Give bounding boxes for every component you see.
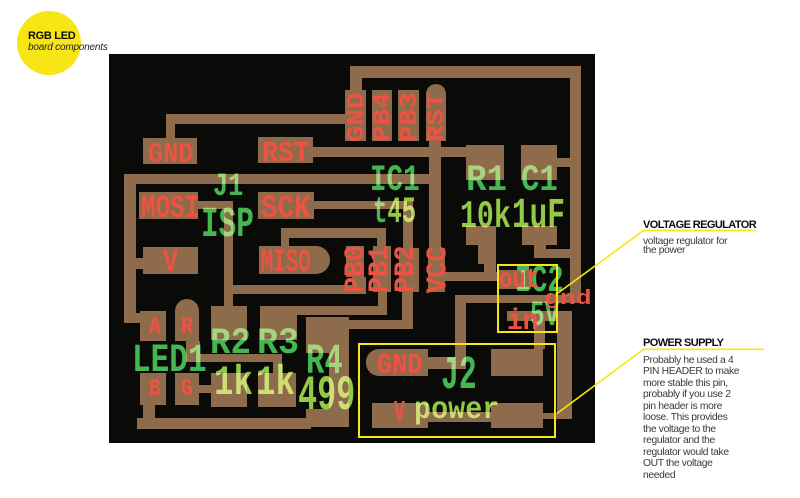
label IC2 <box>515 263 564 301</box>
pad C1 bottom <box>522 226 557 245</box>
label LED1 R <box>181 316 193 341</box>
pad R3 bottom <box>258 373 296 407</box>
wire left vertical <box>124 174 136 323</box>
wire top frame elbow <box>350 66 362 96</box>
wire PB1 upleg <box>378 292 387 306</box>
callout line power supply <box>557 349 764 413</box>
label J1 SCK <box>261 193 311 225</box>
pad LED1 R <box>175 299 199 341</box>
wire R3 to PB1 <box>262 306 387 315</box>
label J1 GND <box>148 140 193 169</box>
label 10k <box>460 198 511 237</box>
wire gnd top horizontal <box>166 114 345 124</box>
wire C1 stem <box>534 245 546 258</box>
label LED1 B <box>149 378 161 403</box>
wire J2 righttop stub <box>534 321 545 349</box>
wire R4 to PB2 <box>307 320 413 329</box>
callout box IC2 voltage regulator <box>497 264 558 333</box>
annotation text voltage regulator <box>643 237 727 256</box>
label J1 <box>213 171 243 203</box>
pad R1 bottom <box>466 226 496 245</box>
wire bottom horizontal <box>137 418 311 429</box>
wire J2 bottom link <box>543 413 571 419</box>
label header GND (vertical) <box>345 61 370 174</box>
pad J2 top right <box>491 349 543 376</box>
wire SCK stem to PB2 <box>403 209 413 248</box>
wire R1 stem <box>484 264 496 281</box>
wire V stub <box>124 258 143 269</box>
pad R2 top <box>211 306 247 340</box>
label R3 <box>257 326 299 363</box>
wire A elbow <box>124 313 140 323</box>
pad R3 top <box>260 306 297 340</box>
wire R to R3 <box>186 354 282 362</box>
pad IC1 VCC <box>428 248 445 292</box>
label 1uF <box>512 195 565 238</box>
label R4 499 <box>298 372 355 421</box>
label R4 <box>306 341 343 384</box>
label IC1 PB1 (vertical) <box>367 222 395 316</box>
wire right slab <box>557 311 572 419</box>
pad J2 V <box>372 403 428 428</box>
wire RST to R1 <box>313 147 466 157</box>
wire gnd horizontal <box>455 295 581 303</box>
wire PB2 upleg <box>402 292 413 320</box>
label IC1 PB0 (vertical) <box>343 222 371 316</box>
label LED1 G <box>181 378 193 403</box>
label LED1 A <box>149 316 161 341</box>
annotation heading VOLTAGE REGULATOR <box>643 219 756 231</box>
pad R1 top <box>466 145 504 180</box>
wire R4 arm <box>329 353 349 409</box>
label J1 RST <box>262 139 310 168</box>
pad J2 GND <box>366 349 428 376</box>
pad R4 bottom <box>306 409 349 427</box>
pad J1 RST <box>258 137 313 163</box>
wire MOSI stub <box>198 201 232 209</box>
pad J1 MISO <box>259 246 330 274</box>
pad LED1 B <box>140 373 166 405</box>
pad LED1 G <box>175 373 199 405</box>
label LED1 <box>132 341 207 381</box>
wire C1 to gnd vert <box>546 249 575 258</box>
pad IC1 PB2 <box>399 248 419 292</box>
label J2 V <box>394 399 405 430</box>
badge title RGB LED <box>28 30 75 42</box>
wire J2 GND stub <box>428 357 455 369</box>
pad J1 GND <box>143 138 197 164</box>
wire MISO upleg <box>281 228 289 246</box>
wire 5V rail horizontal <box>124 174 436 184</box>
wire RST vertical <box>429 141 441 248</box>
annotation heading POWER SUPPLY <box>643 337 723 349</box>
label J2 <box>441 353 477 400</box>
wire G stub <box>196 385 211 393</box>
pad header GND <box>345 90 366 141</box>
wire R1 stem step <box>478 245 496 264</box>
wire gnd vertical to J2 <box>455 303 466 369</box>
pad J2 bottom right <box>491 403 543 428</box>
wire R3 bottom downleg <box>273 361 282 373</box>
wire VCC to out <box>445 272 497 281</box>
label R2 1k <box>214 363 253 405</box>
pad LED1 A <box>140 311 166 341</box>
label header RST (vertical) <box>426 61 451 174</box>
wire MISO horizontal <box>281 228 386 238</box>
label t45 <box>373 195 416 233</box>
callout line voltage regulator <box>558 231 755 294</box>
wire R stub <box>186 341 200 361</box>
label header PB3 (vertical) <box>398 61 423 174</box>
badge subtitle <box>28 42 108 53</box>
pad R2 bottom <box>211 373 247 407</box>
label J2 power <box>414 395 499 427</box>
wire gnd stem <box>166 114 175 138</box>
label J1 MOSI <box>141 193 199 225</box>
wire B stub <box>143 405 155 418</box>
wire C1 to frame <box>557 158 581 167</box>
wire SCK horizontal <box>314 201 413 209</box>
PCB board <box>109 54 595 443</box>
wire PB0 upleg <box>352 277 366 286</box>
wire MOSI vertical <box>224 201 233 310</box>
yellow badge circle <box>17 11 81 75</box>
pad R4 top <box>306 317 349 353</box>
wire MISO stem <box>377 238 386 247</box>
pad J1 MOSI <box>139 192 198 219</box>
label R1 <box>466 163 507 200</box>
wire IC2 in trace <box>507 311 557 321</box>
label IC1 PB2 (vertical) <box>393 222 421 316</box>
label header PB4 (vertical) <box>372 61 397 174</box>
pad IC1 PB0 <box>346 246 364 277</box>
label IC1 <box>370 163 420 200</box>
wire J2 bar <box>428 412 491 422</box>
label J1 V <box>163 247 178 279</box>
wire right frame vertical <box>570 67 581 303</box>
pad C1 top <box>521 145 557 180</box>
label IC2 out <box>499 267 539 295</box>
label R3 1k <box>256 363 295 405</box>
label ISP <box>201 204 254 247</box>
label IC2 in <box>507 307 538 336</box>
label C1 <box>521 163 558 200</box>
pad IC2 out <box>497 270 531 289</box>
pad J1 SCK <box>258 192 314 219</box>
pad header PB3 <box>398 90 419 141</box>
pad IC1 PB1 <box>373 246 391 292</box>
pad header PB4 <box>372 90 392 141</box>
label IC1 VCC (vertical) <box>423 224 452 315</box>
label J1 MISO <box>261 247 311 279</box>
annotation text power supply <box>643 355 739 482</box>
label IC2 gnd <box>544 290 592 310</box>
label R2 <box>210 326 251 363</box>
callout box J2 power supply <box>358 343 556 438</box>
pad header RST <box>426 84 446 141</box>
label J2 GND <box>377 351 422 380</box>
wire MOSI to PB0 <box>224 285 366 294</box>
wire top frame horizontal <box>350 66 581 78</box>
label IC2 5V <box>530 299 559 334</box>
pad J1 V <box>143 247 198 274</box>
